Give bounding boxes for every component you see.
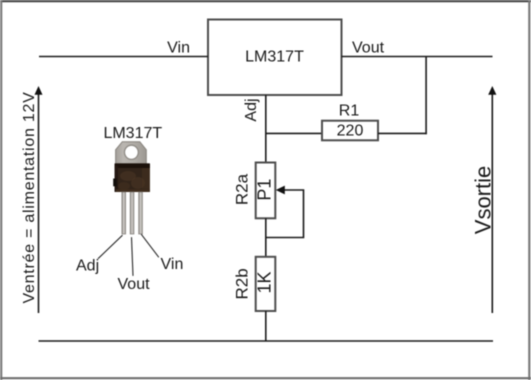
mounting hole <box>124 145 138 159</box>
leader line Adj pin <box>98 235 123 259</box>
wire Adj to R1 <box>266 132 322 134</box>
regulator package TO-220 illustration <box>113 142 150 234</box>
metal tab <box>116 142 147 166</box>
annotation arrow Vsortie <box>488 86 496 313</box>
svg-text:R1: R1 <box>339 103 360 120</box>
svg-text:1K: 1K <box>254 271 274 293</box>
potentiometer P1 R2a <box>233 163 276 219</box>
svg-text:LM317T: LM317T <box>245 49 304 66</box>
wire P1 to R2b <box>265 218 267 256</box>
svg-text:P1: P1 <box>254 179 274 201</box>
svg-text:LM317T: LM317T <box>103 125 162 142</box>
wire Adj pin <box>265 95 267 163</box>
svg-text:Ventrée = alimentation 12V: Ventrée = alimentation 12V <box>21 91 38 303</box>
resistor R2b 1K <box>233 257 276 311</box>
svg-text:Vin: Vin <box>161 256 184 273</box>
wire R1 to output branch <box>378 132 427 134</box>
wire bottom rail <box>39 340 494 342</box>
svg-text:Vin: Vin <box>167 39 190 56</box>
legs <box>122 192 126 234</box>
wire R2b to bottom rail <box>265 311 267 341</box>
wiper arrow P1 <box>267 186 304 238</box>
svg-text:Vsortie: Vsortie <box>471 166 496 234</box>
leader line Vin pin <box>141 234 159 257</box>
annotation arrow Ventree <box>35 86 43 313</box>
wire Vout output <box>342 56 493 58</box>
case notch left <box>113 179 116 187</box>
svg-text:220: 220 <box>337 123 364 140</box>
resistor R1 220 <box>322 103 378 141</box>
svg-text:Vout: Vout <box>118 276 151 293</box>
leader line Vout pin <box>132 237 134 276</box>
regulator U1 LM317T <box>208 20 342 96</box>
wire output branch vertical <box>425 57 427 135</box>
svg-text:Adj: Adj <box>243 98 260 121</box>
plastic body <box>115 163 150 192</box>
svg-text:Vout: Vout <box>352 39 385 56</box>
svg-text:R2a: R2a <box>233 173 252 205</box>
wire Vin input <box>39 56 208 58</box>
svg-text:R2b: R2b <box>233 268 252 299</box>
svg-text:Adj: Adj <box>76 258 99 275</box>
